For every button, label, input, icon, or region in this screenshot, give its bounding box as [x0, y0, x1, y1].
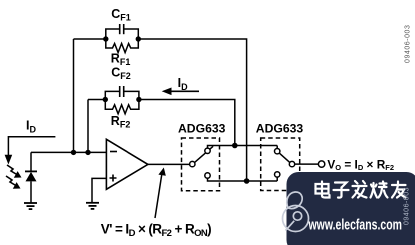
- watermark elecfans url: [308, 216, 402, 233]
- switch S2 common circle: [289, 161, 294, 166]
- switch box ADG633 (left) dashed: [182, 138, 220, 191]
- output terminal VO: [318, 161, 324, 167]
- wire: bottom rail between switches: [247, 180, 278, 182]
- watermark chinese text: 子: [334, 183, 349, 198]
- label ID (feedback current): [178, 76, 188, 92]
- wire: opamp output: [148, 163, 190, 165]
- node: junction CF1 loop on input: [71, 150, 76, 155]
- ground (photodiode): [24, 203, 37, 209]
- switch box ADG633 (right) dashed: [261, 138, 300, 191]
- switch S1 lever: [195, 146, 214, 162]
- node: CF1 left junction: [103, 36, 108, 41]
- watermark logo: [283, 192, 309, 232]
- watermark chinese text: 烧: [371, 182, 388, 198]
- label RF2: [111, 114, 131, 130]
- switch S1 top throw circle: [205, 148, 210, 153]
- wire: S1 bottom throw stub to bottom rail: [208, 178, 247, 181]
- watermark chinese text: 发: [353, 181, 367, 198]
- wire: S2 common to output terminal: [295, 163, 319, 165]
- annotation arrow to V' node: [155, 168, 166, 219]
- svg-text:www.elecfans.com: www.elecfans.com: [308, 216, 402, 233]
- wire: CF2 loop left vertical: [87, 100, 89, 153]
- node: CF2 left junction: [103, 97, 108, 102]
- svg-text:ADG633: ADG633: [256, 122, 304, 136]
- wire: opamp noninverting input: [92, 178, 106, 202]
- label CF1: [111, 7, 131, 23]
- capacitor CF2: [105, 86, 139, 100]
- node: junction CF2 loop on input: [85, 150, 90, 155]
- wire: CF1 network left lead: [74, 38, 106, 40]
- switch S1 bottom throw circle: [205, 173, 210, 178]
- wire: S1 top throw stub to top rail: [208, 146, 235, 149]
- capacitor CF1: [106, 24, 139, 39]
- current arrow ID (feedback): [162, 88, 199, 96]
- label V' equation: [101, 221, 211, 239]
- light arrows into photodiode: [6, 165, 19, 187]
- svg-text:RF2: RF2: [111, 114, 131, 130]
- svg-text:ID: ID: [26, 119, 36, 135]
- resistor RF2: [105, 100, 139, 114]
- wire: S2 top throw stub: [276, 146, 278, 149]
- current pointer ID (photodiode): [5, 137, 56, 165]
- watermark chinese text: 电: [316, 182, 330, 198]
- svg-text:V' = ID × (RF2 + RON): V' = ID × (RF2 + RON): [101, 221, 211, 239]
- switch S2 bottom throw circle: [275, 172, 280, 177]
- svg-text:CF2: CF2: [111, 65, 131, 81]
- label CF2: [111, 65, 131, 81]
- node: CF1 rail junction: [244, 178, 250, 184]
- node: CF1 right junction: [136, 36, 141, 41]
- wire: CF1 right lead to switch bottom rail: [138, 39, 246, 181]
- svg-text:09406-003: 09406-003: [405, 25, 412, 63]
- op-amp U1: [106, 139, 147, 189]
- watermark chinese text: 友: [392, 182, 406, 198]
- resistor RF1: [106, 39, 139, 53]
- label ID (photodiode current): [26, 119, 36, 135]
- svg-text:ADG633: ADG633: [178, 122, 226, 136]
- wire: CF2 right lead to switch top rail: [139, 100, 235, 146]
- wire: top rail between switches: [235, 145, 277, 147]
- switch S2 top throw circle: [275, 149, 280, 154]
- svg-text:09406-003: 09406-003: [404, 187, 411, 225]
- switch S1 (left): common circle: [190, 161, 195, 166]
- photodiode D1: [25, 152, 37, 203]
- svg-text:CF1: CF1: [111, 7, 131, 23]
- label ADG633 (right): [256, 122, 304, 136]
- label RF1: [111, 52, 131, 67]
- wire: opamp inverting input line: [31, 151, 106, 153]
- wire: CF2 network left lead: [88, 99, 105, 101]
- switch S2 lever: [279, 153, 289, 162]
- svg-text:VO = ID × RF2: VO = ID × RF2: [327, 157, 394, 172]
- node: CF2 rail junction: [232, 143, 238, 149]
- node: CF2 right junction: [136, 97, 141, 102]
- watermark elecfans dark box: [287, 172, 415, 245]
- wire: CF1 loop left vertical: [73, 39, 75, 152]
- label ADG633 (left): [178, 122, 226, 136]
- ground (opamp +): [86, 203, 99, 209]
- svg-text:ID: ID: [178, 76, 188, 92]
- figure number 09406-003 vertical (top right): [405, 25, 412, 63]
- wire: S2 bottom throw stub: [276, 177, 278, 181]
- figure number 09406-003 vertical (on box): [404, 187, 411, 225]
- label VO equation: [327, 157, 394, 172]
